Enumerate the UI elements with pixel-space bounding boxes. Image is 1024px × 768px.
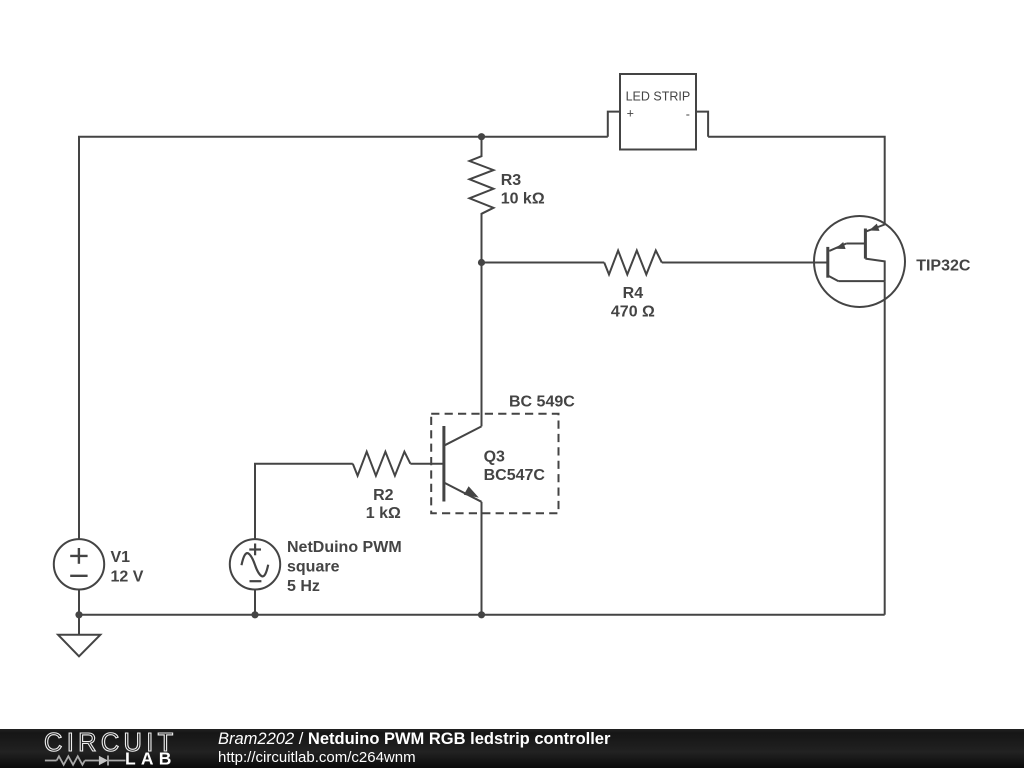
svg-text:R2: R2	[373, 487, 394, 504]
label R2 value	[366, 487, 401, 522]
node junction top of R3	[478, 133, 485, 140]
svg-text:LAB: LAB	[125, 748, 177, 768]
resistor R3	[470, 137, 494, 263]
svg-text:V1: V1	[111, 549, 131, 566]
wire V2 minus down to rail	[254, 590, 256, 615]
svg-text:5 Hz: 5 Hz	[287, 578, 320, 595]
svg-text:+: +	[627, 107, 634, 121]
svg-text:10 kΩ: 10 kΩ	[501, 191, 545, 208]
svg-text:12 V: 12 V	[111, 568, 144, 585]
resistor R4	[604, 251, 662, 275]
node junction V1 ground rail	[75, 611, 82, 618]
wire node down to Q3 collector	[481, 263, 483, 427]
resistor R2	[353, 452, 411, 476]
voltage source V2 NetDuino PWM	[230, 539, 280, 589]
svg-text:470 Ω: 470 Ω	[611, 304, 655, 321]
wire V1 plus up and across top to LED strip	[79, 137, 608, 540]
label R3 value	[501, 172, 545, 208]
transistor TIP32C (PNP darlington)	[814, 216, 905, 307]
svg-text:LED STRIP: LED STRIP	[626, 90, 691, 104]
transistor Q3	[444, 426, 482, 502]
node junction R3 R4 Q3	[478, 259, 485, 266]
dashed equivalence box BC 549C	[431, 414, 558, 513]
wire R4 to TIP32C base	[662, 262, 828, 264]
wire R2 to Q3 base	[410, 463, 444, 465]
footer url	[218, 749, 416, 766]
label NetDuino PWM square 5Hz	[287, 539, 402, 595]
node junction Q3 emitter on rail	[478, 611, 485, 618]
footer title	[218, 730, 610, 749]
label V1 12V	[111, 549, 144, 585]
wire LED strip minus across and down to TIP32C emitter	[708, 137, 885, 225]
svg-text:square: square	[287, 559, 340, 576]
svg-text:-: -	[686, 107, 690, 121]
svg-text:TIP32C: TIP32C	[916, 257, 971, 274]
svg-text:BC547C: BC547C	[484, 467, 546, 484]
wire ground rail up to TIP32C collector	[884, 281, 886, 615]
svg-text:R4: R4	[623, 285, 644, 302]
wire V1 minus down to ground	[78, 590, 80, 635]
svg-text:1 kΩ: 1 kΩ	[366, 505, 401, 522]
svg-text:NetDuino PWM: NetDuino PWM	[287, 539, 402, 556]
footer bar	[0, 729, 1024, 768]
bottom ground rail wire	[79, 614, 885, 616]
svg-text:Q3: Q3	[484, 448, 505, 465]
ground symbol	[58, 635, 100, 657]
CircuitLab logo	[40, 729, 180, 768]
label Q3 BC547C	[484, 448, 546, 484]
LED strip connector	[608, 74, 708, 150]
svg-text:R3: R3	[501, 172, 522, 189]
svg-text:BC 549C: BC 549C	[509, 394, 575, 411]
wire node to R4	[482, 262, 605, 264]
wire V2 up and across to R2	[255, 464, 353, 539]
wire Q3 emitter down to ground rail	[481, 502, 483, 615]
node junction V2 on rail	[251, 611, 258, 618]
label R4 value	[611, 285, 655, 321]
voltage source V1	[54, 539, 104, 589]
